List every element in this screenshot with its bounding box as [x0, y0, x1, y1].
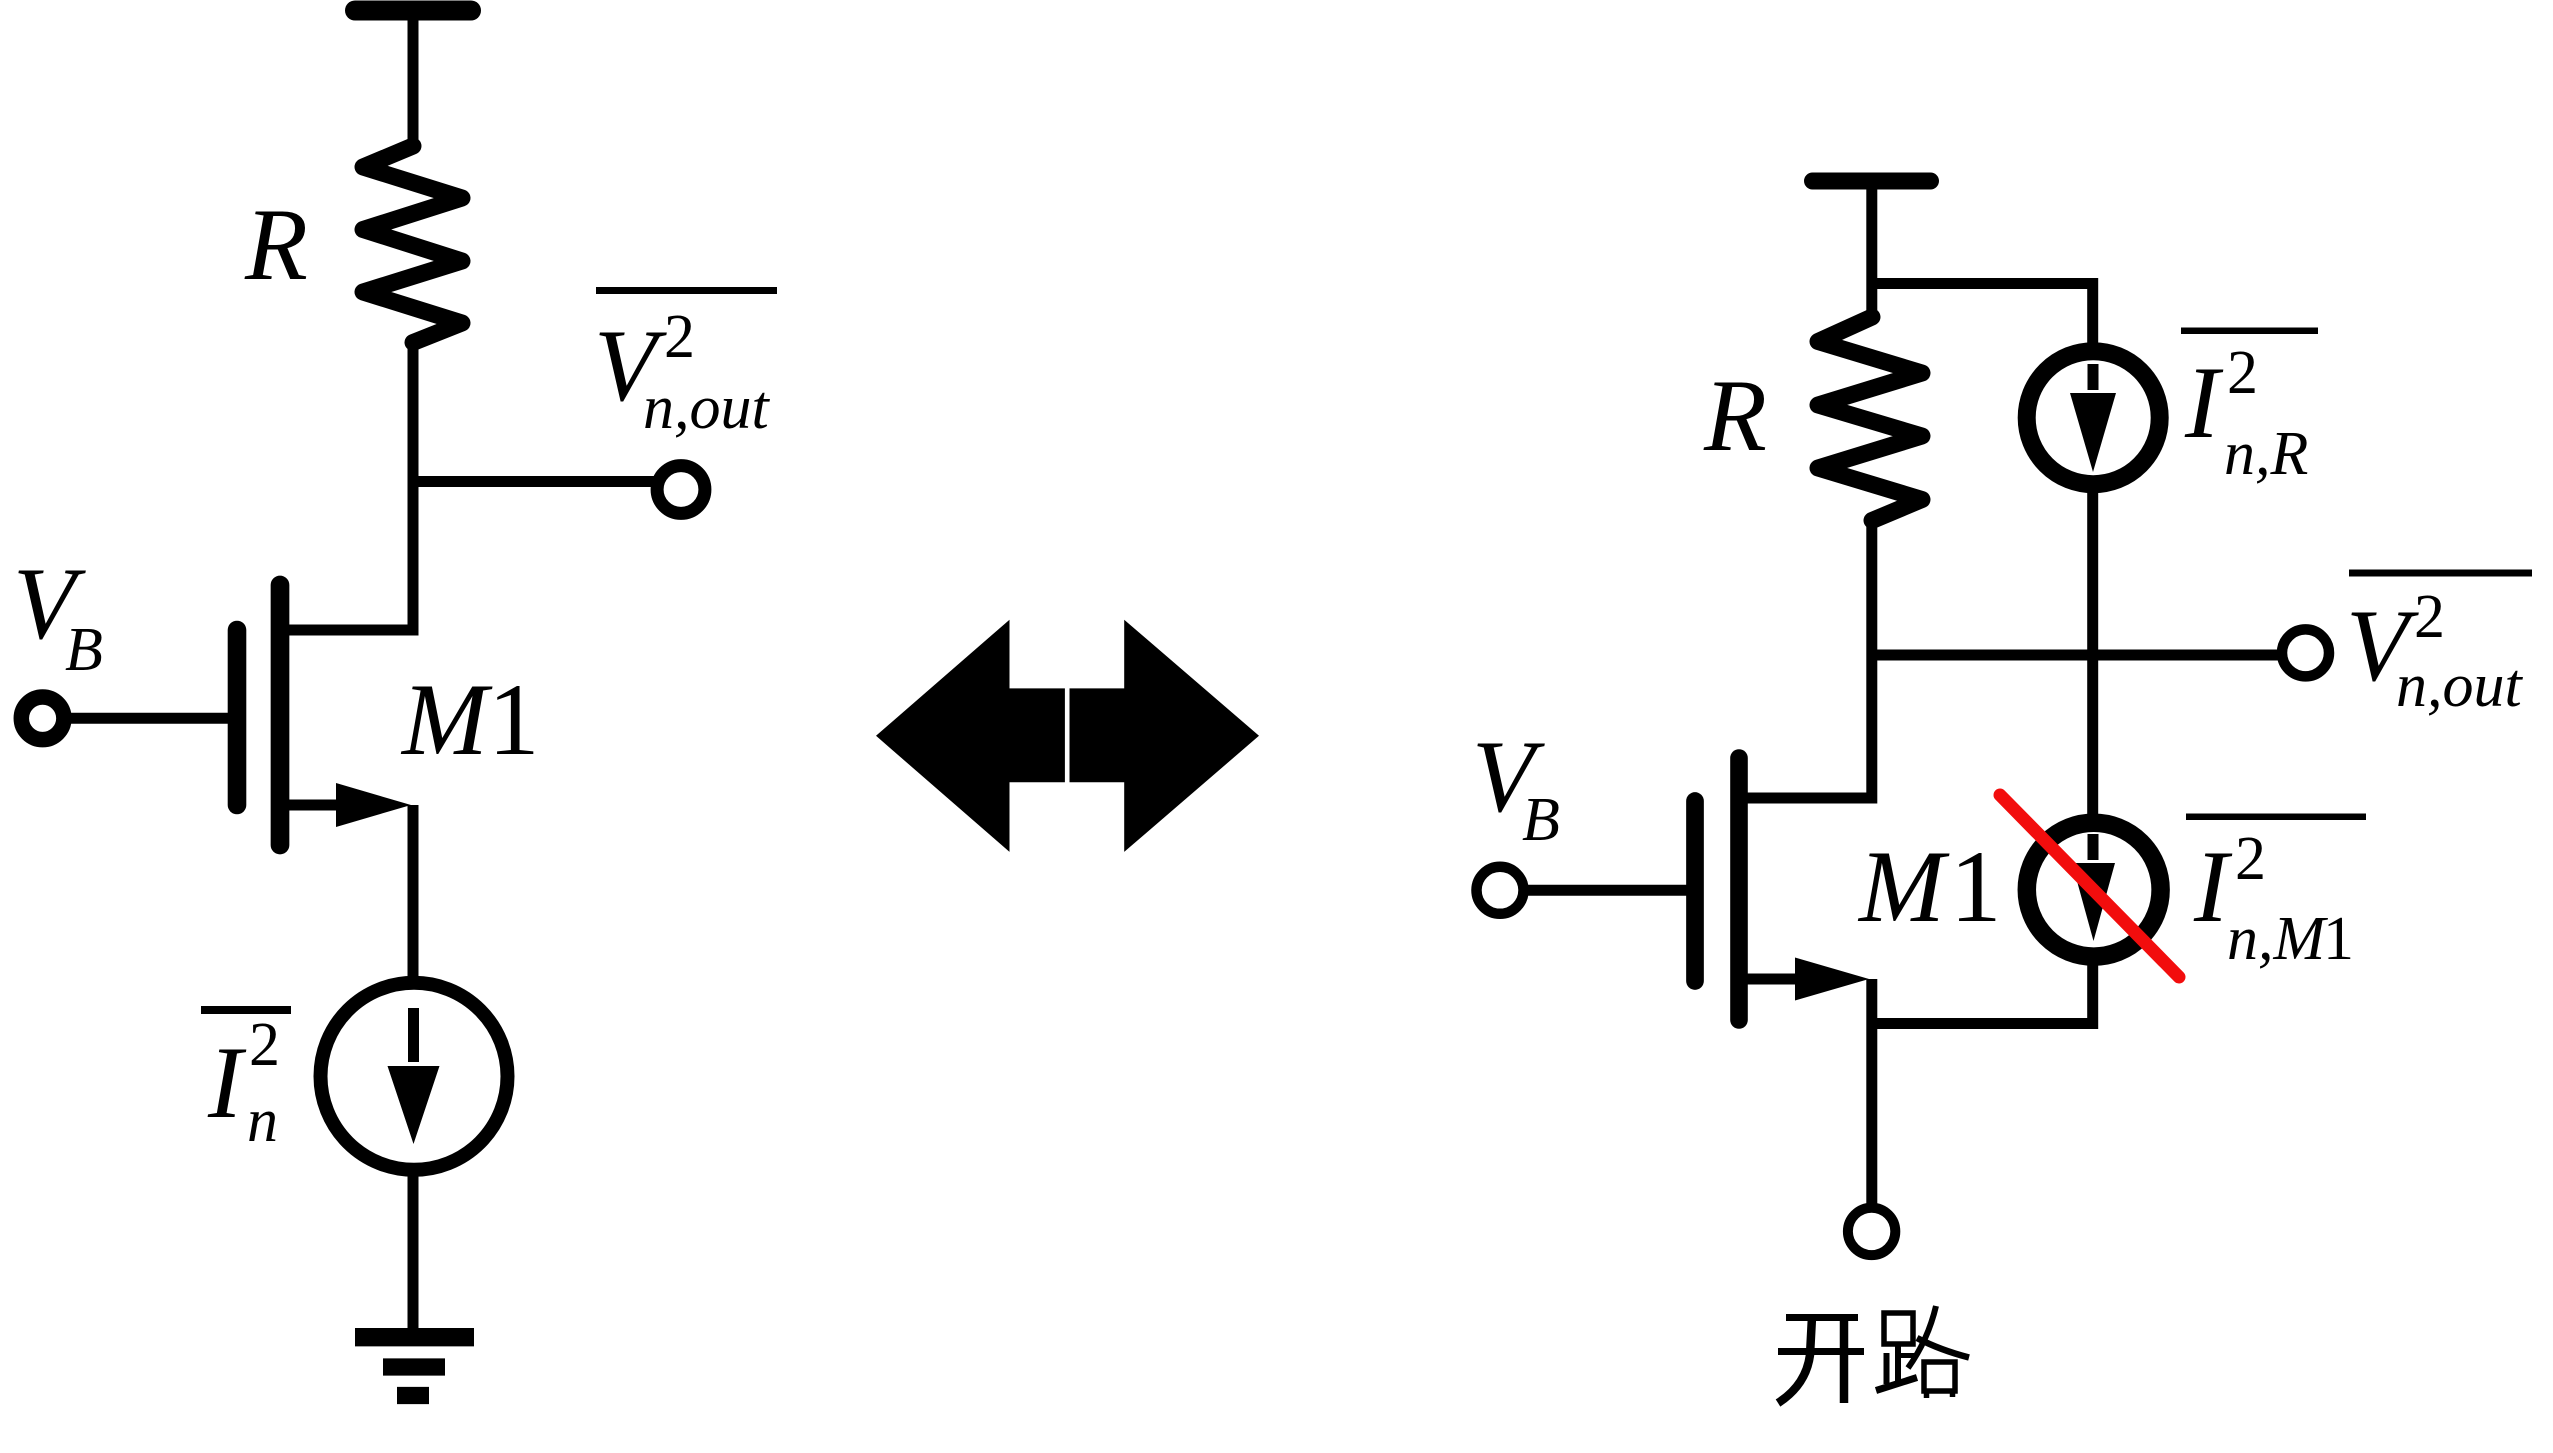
power rail VDD (right) [1813, 173, 1931, 190]
svg-text:n,out: n,out [643, 374, 771, 442]
overline of Vn,out label (right) [2349, 570, 2532, 577]
input terminal VB (left) [21, 697, 64, 740]
equivalence arrow right half [1070, 620, 1260, 852]
source wire M1 (right) [1741, 974, 1800, 985]
transistor M1 gate bar (left) [228, 630, 247, 805]
chinese text kai (open) [1778, 1317, 1864, 1403]
svg-text:R: R [1703, 359, 1767, 473]
svg-text:n,M: n,M [2227, 905, 2329, 973]
wire VDD down (right) [1866, 181, 1877, 320]
svg-text:I: I [207, 1026, 247, 1140]
svg-text:2: 2 [249, 1011, 280, 1079]
source arrow M1 (left) [336, 783, 411, 827]
svg-text:R: R [244, 188, 308, 302]
current source In circle (left) [321, 983, 508, 1170]
overline of In label (left) [201, 1006, 291, 1014]
current source In,M1 arrow [2088, 834, 2099, 860]
svg-text:n: n [247, 1087, 278, 1155]
overline of In,R label [2181, 328, 2318, 335]
gate wire (left) [64, 713, 232, 724]
svg-text:n,out: n,out [2396, 652, 2524, 720]
svg-text:1: 1 [1950, 830, 2002, 944]
transistor M1 channel bar (right) [1730, 758, 1748, 1020]
svg-text:1: 1 [488, 663, 540, 777]
wire In,R branch vertical (right) [2087, 489, 2098, 822]
drain wire M1 (left) [282, 625, 413, 636]
transistor M1 gate bar (right) [1686, 801, 1704, 981]
wire resistor to drain node (right) [1866, 519, 1877, 804]
equivalence arrow left half [876, 620, 1065, 852]
resistor R (left) [363, 146, 462, 343]
power rail VDD (left) [355, 1, 471, 21]
current source In,M1 circle (crossed out) [2027, 823, 2161, 957]
svg-text:B: B [1522, 786, 1560, 854]
output terminal circle (left) [657, 466, 705, 514]
gate wire (right) [1522, 885, 1690, 896]
current source In arrow (left) [408, 1008, 419, 1062]
input terminal VB (right) [1477, 867, 1524, 914]
wire source to current source (left) [408, 805, 419, 985]
chinese text lu (circuit/road) [1876, 1306, 1969, 1398]
svg-text:2: 2 [2414, 583, 2445, 651]
overline of Vn,out label (left) [596, 287, 777, 294]
current source In,R circle [2027, 351, 2160, 484]
resistor R (right) [1818, 317, 1922, 521]
output terminal circle (right) [2282, 629, 2329, 676]
wire VDD to resistor (left) [408, 11, 419, 150]
open circuit terminal (right) [1848, 1208, 1895, 1255]
svg-text:2: 2 [664, 303, 695, 371]
wire resistor to drain, output node (left) [408, 341, 419, 636]
svg-text:B: B [65, 616, 103, 684]
svg-text:I: I [2184, 346, 2224, 460]
svg-text:n,R: n,R [2224, 420, 2308, 488]
overline of In,M1 label [2186, 814, 2366, 821]
red slash crossing out In,M1 [2000, 795, 2179, 977]
wire current source to ground (left) [408, 1168, 419, 1333]
transistor M1 channel bar (left) [271, 585, 290, 845]
wire source node down to open terminal (right) [1866, 979, 1877, 1207]
wire to output terminal (left) [413, 476, 657, 487]
ground symbol [355, 1328, 474, 1346]
source wire M1 (left) [282, 800, 340, 811]
svg-text:M: M [400, 663, 493, 777]
drain wire M1 (right) [1741, 793, 1877, 804]
output wire (right) [1872, 650, 2283, 661]
source arrow M1 (right) [1795, 958, 1869, 1001]
wire top node to In,R branch (right) [1872, 284, 2093, 353]
svg-text:M: M [1857, 830, 1950, 944]
svg-text:1: 1 [2323, 905, 2354, 973]
svg-text:2: 2 [2227, 339, 2258, 407]
svg-text:2: 2 [2235, 825, 2266, 893]
current source In,R arrow [2088, 364, 2099, 390]
wire source node to In,M1 bottom (right) [1872, 960, 2093, 1024]
